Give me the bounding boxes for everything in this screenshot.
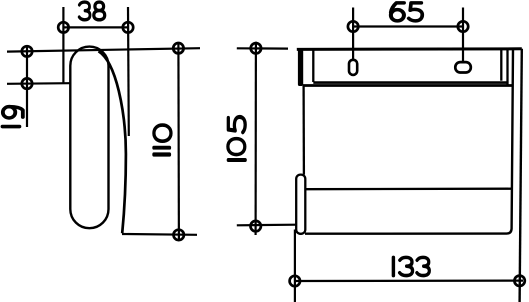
terminator circle 38 left xyxy=(58,22,68,32)
housing bottom line xyxy=(303,84,514,87)
dimension text 19 (rotated) xyxy=(2,125,19,128)
terminator circle 133 left xyxy=(290,276,300,286)
terminator circle 65 left xyxy=(348,21,358,31)
extension line 38 right xyxy=(127,7,130,136)
housing right edge outer / extension line 133 right xyxy=(520,49,522,302)
dimension text 105 (rotated) xyxy=(228,158,245,161)
extension line 110 bottom xyxy=(122,233,197,236)
dimension text 110 (rotated) xyxy=(154,153,170,156)
extension line 105 top xyxy=(237,47,288,49)
dimension line 133 xyxy=(295,280,523,283)
extension line top datum (19/110) xyxy=(7,48,200,51)
dimension line 19 xyxy=(26,46,28,127)
roller top line xyxy=(305,188,512,191)
roller left end cap xyxy=(296,175,305,234)
terminator circle 19 top xyxy=(22,46,32,56)
mounting slot right xyxy=(455,62,471,72)
extension line 19 bottom xyxy=(7,82,70,85)
extension line 133 left xyxy=(294,230,296,302)
dimension text 38 xyxy=(79,2,90,20)
dimension line 110 xyxy=(177,42,180,241)
terminator circle 133 right xyxy=(514,276,524,286)
housing inner right vertical B xyxy=(506,50,508,86)
dimension line 105 xyxy=(255,42,257,235)
terminator circle 65 right xyxy=(458,21,468,31)
body left edge xyxy=(302,86,305,175)
housing inner left vertical xyxy=(312,50,314,82)
terminator circle 105 top xyxy=(251,43,261,53)
housing top edge xyxy=(297,47,522,51)
dimension text 133 xyxy=(392,257,395,275)
mounting slot left xyxy=(349,60,357,75)
terminator circle 110 bottom xyxy=(174,230,184,240)
terminator circle 38 right xyxy=(123,22,133,32)
terminator circle 110 top xyxy=(173,43,183,53)
extension line 38 left xyxy=(62,7,64,84)
housing left end cap thick edge xyxy=(298,49,303,86)
holder side profile capsule body xyxy=(70,47,108,229)
terminator circle 105 bottom xyxy=(251,221,261,231)
housing right edge inner and roller bottom line xyxy=(305,49,513,234)
housing inner right vertical A xyxy=(500,50,502,81)
extension line 65 left xyxy=(352,8,354,60)
dimension line 65 xyxy=(353,25,463,27)
terminator circle 19 bottom xyxy=(22,78,32,88)
extension line 105 bottom xyxy=(237,224,297,227)
dimension text 65 xyxy=(391,3,404,21)
holder side profile back curve xyxy=(99,51,126,233)
dimension line 38 xyxy=(63,26,128,28)
housing inner bottom line xyxy=(313,81,507,84)
extension line 65 right xyxy=(462,8,464,63)
